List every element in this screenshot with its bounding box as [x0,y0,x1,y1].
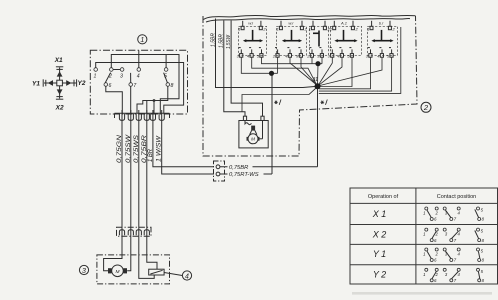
svg-text:1: 1 [276,27,278,32]
svg-text:5: 5 [164,74,167,80]
svg-text:X2: X2 [55,105,64,112]
svg-text:0,75BR: 0,75BR [142,134,148,163]
svg-text:Operation of: Operation of [368,194,399,200]
svg-text:0,75RT-WS: 0,75RT-WS [229,172,259,178]
svg-text:4: 4 [185,273,189,280]
svg-text:1: 1 [423,252,425,257]
svg-text:1: 1 [423,232,425,237]
svg-text:4: 4 [137,74,140,80]
svg-text:2: 2 [423,103,429,112]
svg-text:0,75SW: 0,75SW [126,133,132,163]
svg-text:1: 1 [308,27,310,32]
svg-text:1: 1 [238,27,240,32]
svg-text:8: 8 [170,83,173,89]
svg-text:A.1: A.1 [340,20,347,25]
svg-text:31: 31 [313,77,319,83]
svg-text:w.r: w.r [288,20,294,25]
svg-text:0,75GN: 0,75GN [117,134,123,163]
svg-text:X 2: X 2 [372,229,387,239]
svg-text:1,5BR: 1,5BR [219,34,225,48]
svg-text:3: 3 [120,74,123,80]
svg-text:X 1: X 1 [372,209,387,219]
svg-text:1,5SW: 1,5SW [226,34,232,49]
svg-text:Y 2: Y 2 [373,269,386,279]
svg-text:1: 1 [423,272,425,277]
svg-text:Y1: Y1 [32,81,40,88]
svg-text:b.l: b.l [379,20,383,25]
svg-text:1: 1 [330,27,332,32]
svg-text:1: 1 [423,211,425,216]
svg-text:w.l: w.l [248,20,253,25]
svg-text:1,5BR: 1,5BR [210,33,216,47]
svg-text:0,75BR: 0,75BR [229,165,249,171]
svg-text:X1: X1 [54,57,63,64]
svg-text:1: 1 [140,37,144,44]
svg-text:Y2: Y2 [78,80,86,87]
svg-text:1: 1 [94,74,97,80]
svg-text:1 W/SW: 1 W/SW [157,134,163,162]
svg-text:M: M [251,137,255,142]
svg-text:M: M [116,269,120,275]
svg-text:1: 1 [367,27,369,32]
svg-text:Contact position: Contact position [437,194,476,200]
svg-text:Y 1: Y 1 [373,249,386,259]
svg-text:3: 3 [82,268,86,275]
svg-text:6: 6 [109,83,112,89]
svg-text:0,75WS: 0,75WS [134,135,140,163]
svg-text:2: 2 [108,74,112,80]
svg-text:1 BR: 1 BR [148,148,154,162]
